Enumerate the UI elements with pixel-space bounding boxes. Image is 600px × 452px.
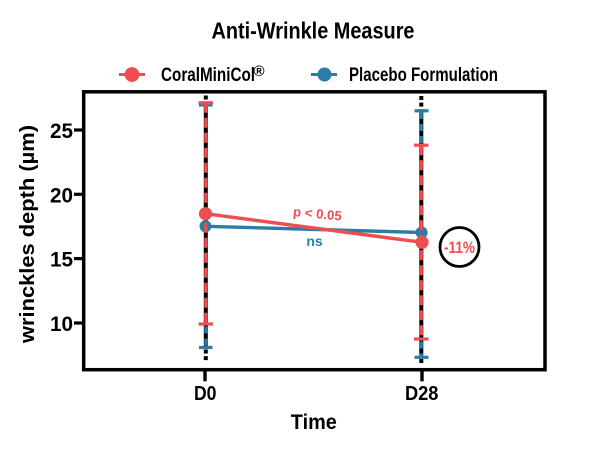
x-axis tick D0: [203, 370, 206, 381]
svg-text:CoralMiniCol: CoralMiniCol: [161, 64, 255, 86]
data point D28 blue: [416, 227, 428, 239]
error bar D28 black dotted line bottom: [419, 359, 423, 363]
error bar D28 black solid line middle: [419, 110, 423, 358]
error bar D28 blue dashed line upper segment: [420, 112, 423, 145]
error bar D0 blue dashed line lower segment: [204, 327, 207, 348]
error bar D28 black dotted line top: [419, 96, 423, 110]
legend marker point CoralMiniCol: [125, 67, 140, 82]
data point D0 red: [199, 207, 212, 220]
y-axis tick 20: [74, 193, 82, 196]
svg-text:Anti-Wrinkle Measure: Anti-Wrinkle Measure: [212, 18, 415, 44]
legend marker line CoralMiniCol: [119, 73, 145, 76]
y-axis tick 10: [74, 321, 82, 324]
data point D0 blue: [200, 220, 212, 232]
error bar cap D28 blue top: [415, 109, 429, 112]
error bar cap D0 red bottom: [199, 322, 214, 325]
legend marker point Placebo: [318, 68, 332, 82]
y-axis tick 15: [74, 257, 82, 260]
error bar D0 black dotted line top: [204, 96, 208, 103]
error bar D0 red dashed line: [204, 103, 207, 324]
error bar cap D0 blue bottom: [199, 346, 213, 349]
annotation circle -11%: [440, 228, 479, 267]
error bar D0 black solid line middle: [204, 102, 208, 348]
legend marker line Placebo: [311, 73, 337, 76]
svg-text:20: 20: [50, 183, 73, 207]
data point D28 red: [415, 236, 428, 249]
svg-text:®: ®: [254, 63, 265, 80]
x-axis tick D28: [420, 370, 423, 381]
plot frame: [84, 92, 545, 370]
svg-text:Placebo Formulation: Placebo Formulation: [349, 64, 498, 86]
series line CoralMiniCol red: [206, 214, 423, 243]
svg-text:D28: D28: [405, 383, 439, 405]
error bar cap D0 red top: [199, 101, 214, 104]
svg-text:-11%: -11%: [444, 239, 475, 257]
series line Placebo blue: [206, 226, 422, 232]
y-axis tick 25: [74, 128, 82, 131]
svg-text:D0: D0: [194, 383, 217, 405]
error bar cap D0 blue top: [199, 103, 213, 106]
svg-text:10: 10: [50, 312, 73, 336]
svg-text:Time: Time: [291, 411, 337, 434]
svg-text:25: 25: [50, 119, 73, 143]
svg-text:wrinckles depth (µm): wrinckles depth (µm): [17, 125, 39, 344]
svg-text:15: 15: [50, 248, 73, 272]
error bar D28 blue dashed line lower segment: [420, 342, 423, 358]
error bar D0 black dotted line bottom: [204, 350, 208, 362]
svg-text:ns: ns: [306, 233, 323, 249]
error bar cap D28 blue bottom: [415, 356, 429, 359]
error bar D28 red dashed line: [420, 145, 423, 339]
error bar cap D28 red top: [414, 144, 429, 147]
error bar cap D28 red bottom: [414, 337, 429, 340]
